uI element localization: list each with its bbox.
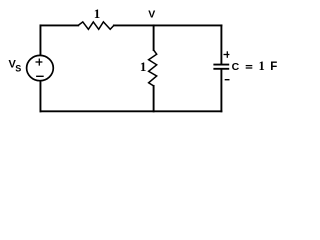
svg-text:C: C	[232, 61, 240, 73]
svg-text:S: S	[15, 64, 21, 74]
svg-text:1: 1	[140, 59, 147, 74]
svg-text:1: 1	[258, 59, 264, 73]
svg-text:V: V	[148, 9, 155, 21]
svg-text:1: 1	[94, 6, 101, 21]
svg-text:F: F	[270, 61, 277, 73]
